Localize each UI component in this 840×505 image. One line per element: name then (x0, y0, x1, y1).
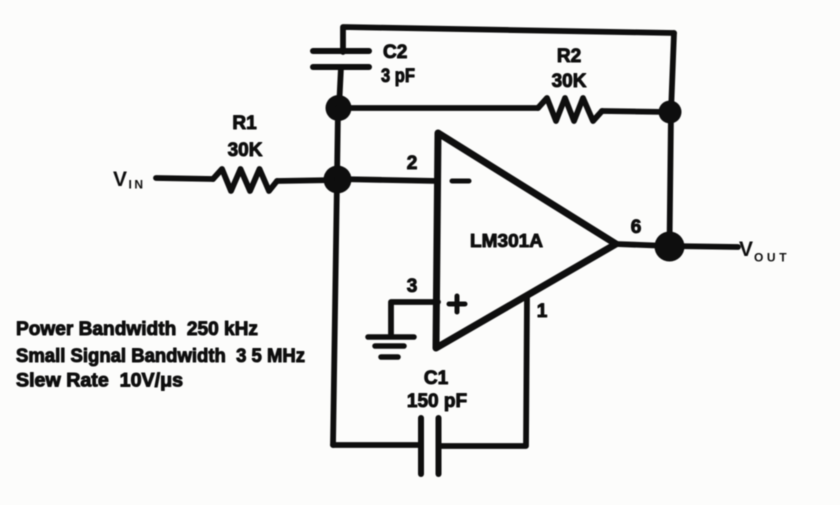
svg-text:6: 6 (631, 217, 642, 238)
net label VOUT (739, 238, 790, 265)
wire: R2 right lead to right rail junction (602, 111, 669, 112)
wire: C2 bottom plate to summing junction (339, 67, 341, 108)
svg-text:OUT: OUT (754, 251, 790, 265)
svg-text:V: V (113, 168, 127, 191)
wire: summing node to op-amp inverting input pin 2 (337, 179, 438, 181)
svg-text:LM301A: LM301A (470, 231, 543, 251)
wire: R1 right lead to input junction (277, 180, 337, 181)
wire: pin 1 lead from op-amp bottom edge down to C1 right lead (439, 297, 528, 446)
svg-text:2: 2 (407, 153, 418, 174)
op-amp U1 LM301A (436, 133, 616, 348)
resistor R1 (213, 169, 277, 191)
svg-text:30K: 30K (228, 140, 263, 161)
svg-text:IN: IN (129, 178, 146, 192)
junction: C2 / R2 node (326, 95, 352, 121)
svg-text:30K: 30K (552, 71, 587, 92)
svg-text:Slew Rate 10V/μs: Slew Rate 10V/μs (16, 371, 183, 392)
svg-text:Small Signal Bandwidth 3 5 MH: Small Signal Bandwidth 3 5 MHz (16, 346, 305, 367)
svg-text:R2: R2 (557, 46, 581, 67)
capacitor C1 (421, 418, 439, 474)
wire: bottom rail from left vertical to C1 left plate (333, 442, 421, 448)
net label VIN (113, 168, 146, 192)
op-amp inverting input minus sign (452, 179, 469, 184)
wire: left vertical from C2 junction through summing node down to C1 bottom rail (333, 108, 338, 445)
capacitor C2 (313, 51, 369, 67)
wire: junction to R2 left lead (338, 105, 538, 111)
wire: right rail from R2 junction down to output node (670, 112, 672, 246)
svg-text:Power Bandwidth 250 kHz: Power Bandwidth 250 kHz (16, 319, 258, 340)
ground (368, 337, 414, 357)
wire: op-amp output to output node (616, 244, 669, 246)
svg-text:R1: R1 (232, 113, 257, 134)
wire: top feedback rail from C2 top plate to right rail corner (343, 27, 674, 52)
svg-text:C2: C2 (383, 42, 407, 63)
svg-text:3 pF: 3 pF (381, 66, 415, 87)
svg-text:V: V (739, 238, 753, 261)
svg-text:3: 3 (407, 276, 418, 297)
wire: pin 3 to ground stub (391, 302, 438, 334)
svg-text:1: 1 (537, 301, 548, 322)
wire: VIN input lead (156, 178, 213, 179)
junction: summing node (R1/C2/pin2) (324, 166, 352, 194)
wire: right rail from top corner down to R2 junction (671, 33, 674, 112)
junction: output node (655, 232, 685, 262)
svg-text:C1: C1 (424, 368, 449, 389)
resistor R2 (538, 98, 602, 121)
wire: output node to VOUT (669, 246, 738, 247)
junction: R2 / right rail node (659, 101, 682, 124)
op-amp non-inverting input plus sign (449, 296, 465, 312)
svg-text:150 pF: 150 pF (407, 391, 467, 412)
